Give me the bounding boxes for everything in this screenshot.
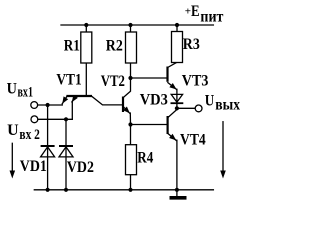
- svg-text:U: U: [7, 122, 19, 139]
- svg-text:VT4: VT4: [180, 131, 206, 148]
- svg-text:VT1: VT1: [56, 72, 81, 89]
- svg-text:вх 2: вх 2: [19, 127, 40, 143]
- svg-text:вых: вых: [215, 96, 240, 113]
- svg-text:пит: пит: [200, 8, 223, 25]
- svg-text:R1: R1: [64, 38, 80, 55]
- svg-text:+: +: [185, 5, 191, 17]
- svg-text:R3: R3: [183, 36, 200, 53]
- svg-text:U: U: [205, 92, 215, 109]
- svg-text:VT3: VT3: [182, 72, 209, 89]
- svg-text:VD2: VD2: [67, 159, 94, 176]
- svg-text:U: U: [7, 81, 18, 98]
- svg-text:E: E: [191, 3, 200, 20]
- svg-text:R2: R2: [106, 38, 123, 55]
- svg-text:вх1: вх1: [18, 85, 34, 101]
- svg-text:VD1: VD1: [20, 158, 47, 175]
- svg-text:R4: R4: [137, 150, 153, 167]
- svg-text:VT2: VT2: [101, 73, 125, 90]
- svg-text:VD3: VD3: [140, 92, 168, 109]
